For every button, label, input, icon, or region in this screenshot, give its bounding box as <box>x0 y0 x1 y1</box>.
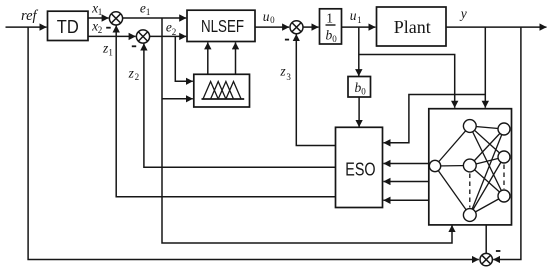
svg-text:z: z <box>279 64 286 79</box>
wire e1 branch into fuzzy block <box>162 98 193 100</box>
block ESO <box>336 127 383 207</box>
NN hidden neuron 3 <box>463 209 476 222</box>
wire e1 branch down to NN bottom <box>162 18 452 243</box>
wire y drop to NN top <box>484 27 486 108</box>
wire e2 branch into fuzzy block <box>175 36 193 81</box>
wire e1 <box>123 17 187 19</box>
NN hidden layer dashed ellipsis <box>469 174 471 208</box>
block TD <box>48 11 89 40</box>
wire y feedback to bottom junction <box>493 27 521 259</box>
NN hidden neuron 2 <box>463 159 476 172</box>
minus sign at junction 1 <box>106 27 111 29</box>
wire NN to ESO output 2 <box>384 181 430 183</box>
svg-text:y: y <box>459 6 467 21</box>
svg-text:ESO: ESO <box>345 158 375 179</box>
svg-text:ref: ref <box>21 8 39 24</box>
svg-text:u: u <box>263 9 270 24</box>
svg-text:NLSEF: NLSEF <box>201 16 244 36</box>
wire y branch to ESO right <box>384 95 486 143</box>
NN hidden neuron 1 <box>463 120 476 133</box>
block b0 <box>348 77 371 98</box>
NN synapse lines input to hidden <box>435 126 470 215</box>
svg-text:0: 0 <box>270 15 275 25</box>
wire z1 from ESO to junction 1 <box>116 26 335 197</box>
wire z2 from ESO to junction 2 <box>144 44 336 168</box>
wire NN to ESO output 1 <box>384 163 430 165</box>
wire u1 branch to NN top <box>359 55 455 108</box>
wire fuzzy to NLSEF right <box>235 42 237 74</box>
wire NN to ESO output 3 <box>384 199 430 201</box>
NN input neuron <box>429 160 440 171</box>
summing junction 1 <box>109 12 122 25</box>
wire ref input <box>6 26 47 28</box>
NN output neuron 1 <box>498 123 510 135</box>
svg-text:0: 0 <box>332 34 337 44</box>
summing junction 4 bottom <box>480 253 492 265</box>
NN output layer dashed ellipsis <box>503 165 505 190</box>
block Plant <box>377 7 447 46</box>
wire e2 <box>150 35 187 37</box>
svg-text:1: 1 <box>146 7 151 17</box>
block fuzzy logic <box>194 74 250 107</box>
svg-text:1: 1 <box>98 7 103 17</box>
minus sign at junction 3 <box>285 39 289 41</box>
block 1/b0 <box>320 9 342 44</box>
svg-text:2: 2 <box>172 27 177 37</box>
wire z3 from ESO to junction 3 <box>296 34 335 145</box>
wire ref feedback drop <box>28 27 479 259</box>
svg-text:2: 2 <box>98 25 103 35</box>
wire x2 <box>88 35 136 37</box>
NN synapse lines hidden to output <box>470 126 504 215</box>
svg-text:0: 0 <box>361 87 366 97</box>
wire junction4 to NN bottom <box>485 225 487 254</box>
wire y output <box>446 26 547 28</box>
wire junction3 to 1/b0 <box>303 26 319 28</box>
summing junction 3 <box>290 21 303 34</box>
svg-text:z: z <box>128 65 135 80</box>
block neural network <box>429 109 512 225</box>
block NLSEF <box>187 10 255 41</box>
svg-text:3: 3 <box>286 72 291 82</box>
wire fuzzy to NLSEF left <box>207 42 209 74</box>
wire u0 <box>255 26 289 28</box>
NN output neuron 3 <box>498 190 510 202</box>
svg-text:1: 1 <box>326 11 333 26</box>
svg-text:TD: TD <box>57 16 79 37</box>
minus sign at junction 2 <box>132 45 136 47</box>
wire u1 drop to b0 <box>358 27 360 76</box>
summing junction 2 <box>136 30 149 43</box>
svg-text:u: u <box>350 8 357 23</box>
wire x1 <box>88 17 109 19</box>
svg-text:1: 1 <box>108 47 113 57</box>
wire b0 to ESO <box>358 97 360 127</box>
svg-text:2: 2 <box>135 72 140 82</box>
minus sign at junction 4 <box>496 250 501 252</box>
svg-text:Plant: Plant <box>394 17 431 37</box>
svg-text:1: 1 <box>357 15 362 25</box>
NN output neuron 2 <box>498 151 510 163</box>
wire u1 <box>342 26 376 28</box>
